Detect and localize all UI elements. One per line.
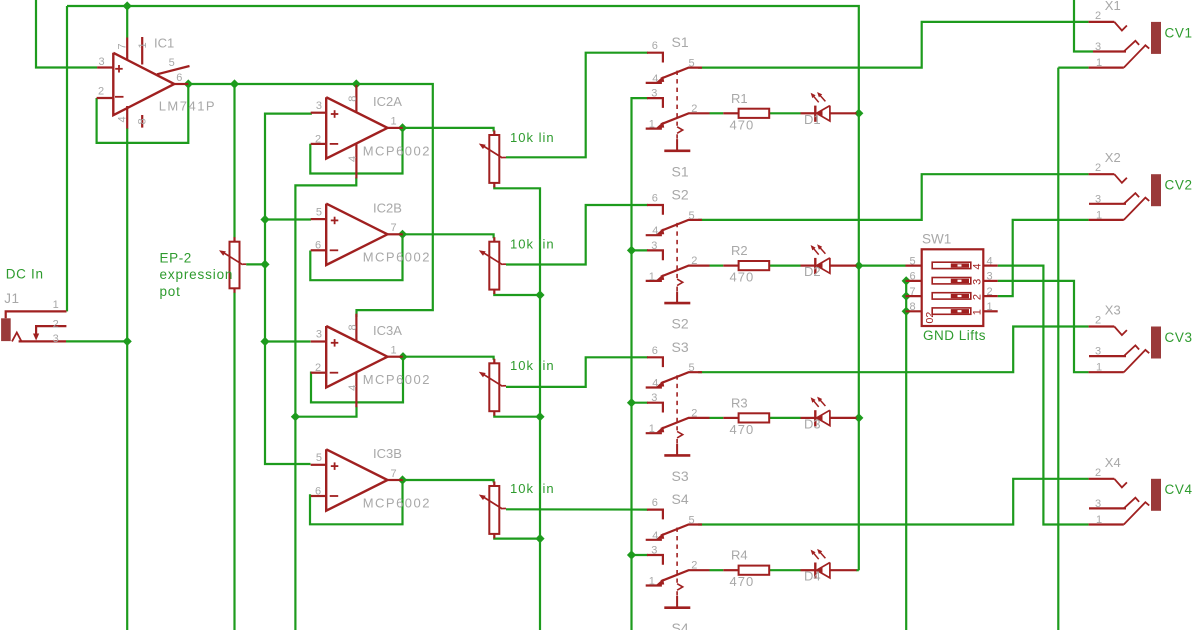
svg-text:5: 5: [689, 515, 695, 527]
svg-text:1: 1: [53, 299, 59, 311]
svg-text:6: 6: [652, 345, 658, 357]
svg-text:10k lin: 10k lin: [510, 130, 555, 145]
svg-text:1: 1: [987, 301, 993, 313]
svg-text:2: 2: [1095, 162, 1101, 174]
svg-text:470: 470: [730, 270, 755, 285]
svg-text:D1: D1: [804, 112, 821, 127]
svg-text:1: 1: [649, 423, 655, 435]
svg-text:8: 8: [910, 301, 916, 313]
svg-text:D4: D4: [804, 569, 821, 584]
svg-text:2: 2: [315, 362, 321, 374]
svg-text:1: 1: [649, 271, 655, 283]
svg-text:IC2B: IC2B: [373, 200, 402, 215]
svg-text:4: 4: [652, 530, 658, 542]
svg-text:2: 2: [1095, 315, 1101, 327]
svg-text:IC3B: IC3B: [373, 446, 402, 461]
svg-text:CV4: CV4: [1165, 482, 1193, 497]
svg-text:S1: S1: [672, 163, 689, 179]
svg-text:3: 3: [651, 392, 657, 404]
svg-text:4: 4: [652, 73, 658, 85]
svg-text:10k lin: 10k lin: [510, 481, 555, 496]
svg-text:7: 7: [910, 286, 916, 298]
svg-text:2: 2: [691, 255, 697, 267]
svg-text:IC3A: IC3A: [373, 323, 402, 338]
svg-text:2: 2: [691, 103, 697, 115]
svg-text:X4: X4: [1105, 455, 1121, 470]
svg-text:1: 1: [649, 576, 655, 588]
svg-text:X3: X3: [1105, 303, 1121, 318]
svg-text:S3: S3: [672, 468, 689, 484]
svg-text:3: 3: [651, 240, 657, 252]
svg-text:R4: R4: [731, 548, 748, 563]
svg-text:02: 02: [924, 312, 936, 324]
svg-text:3: 3: [1095, 193, 1101, 205]
svg-text:4: 4: [652, 225, 658, 237]
svg-text:6: 6: [652, 497, 658, 509]
svg-text:J1: J1: [4, 291, 19, 306]
svg-text:4: 4: [987, 255, 993, 267]
svg-text:S1: S1: [672, 34, 689, 50]
svg-text:2: 2: [1095, 10, 1101, 22]
svg-text:4: 4: [972, 263, 984, 269]
svg-text:pot: pot: [160, 284, 181, 299]
svg-text:1: 1: [137, 42, 149, 48]
svg-text:1: 1: [391, 345, 397, 357]
svg-text:4: 4: [116, 116, 128, 122]
svg-text:3: 3: [651, 545, 657, 557]
svg-text:2: 2: [972, 294, 984, 300]
svg-text:3: 3: [972, 279, 984, 285]
svg-text:5: 5: [689, 210, 695, 222]
svg-text:1: 1: [1096, 514, 1102, 526]
svg-text:470: 470: [730, 117, 755, 132]
svg-text:5: 5: [169, 57, 175, 69]
svg-text:8: 8: [347, 96, 359, 102]
svg-text:2: 2: [1095, 467, 1101, 479]
svg-text:5: 5: [316, 206, 322, 218]
svg-text:6: 6: [652, 40, 658, 52]
svg-text:1: 1: [391, 116, 397, 128]
svg-text:2: 2: [53, 319, 59, 331]
svg-text:CV3: CV3: [1165, 330, 1193, 345]
svg-text:MCP6002: MCP6002: [363, 372, 431, 387]
svg-text:7: 7: [116, 43, 128, 49]
svg-text:6: 6: [910, 271, 916, 283]
svg-text:2: 2: [987, 286, 993, 298]
svg-text:CV1: CV1: [1165, 25, 1193, 40]
svg-text:3: 3: [1095, 498, 1101, 510]
svg-text:1: 1: [1096, 362, 1102, 374]
svg-text:7: 7: [391, 468, 397, 480]
svg-text:3: 3: [651, 88, 657, 100]
svg-text:8: 8: [137, 118, 149, 124]
svg-text:1: 1: [972, 309, 984, 315]
svg-text:1: 1: [649, 119, 655, 131]
svg-text:5: 5: [689, 58, 695, 70]
svg-text:MCP6002: MCP6002: [363, 143, 431, 158]
svg-text:GND Lifts: GND Lifts: [923, 328, 986, 343]
svg-text:expression: expression: [160, 267, 234, 282]
svg-text:470: 470: [730, 574, 755, 589]
svg-text:4: 4: [347, 156, 359, 162]
svg-text:4: 4: [347, 385, 359, 391]
svg-text:3: 3: [316, 329, 322, 341]
svg-text:R2: R2: [731, 243, 748, 258]
svg-text:LM741P: LM741P: [159, 99, 216, 114]
svg-text:6: 6: [652, 193, 658, 205]
svg-text:EP-2: EP-2: [160, 251, 192, 266]
svg-text:S3: S3: [672, 339, 689, 355]
svg-text:5: 5: [316, 452, 322, 464]
svg-text:R1: R1: [731, 91, 748, 106]
svg-text:1: 1: [1096, 57, 1102, 69]
svg-text:4: 4: [652, 378, 658, 390]
svg-text:IC1: IC1: [154, 36, 174, 51]
svg-text:R3: R3: [731, 395, 748, 410]
svg-text:10k lin: 10k lin: [510, 237, 555, 252]
svg-text:SW1: SW1: [922, 232, 951, 247]
svg-text:DC In: DC In: [6, 267, 44, 282]
svg-text:D3: D3: [804, 416, 821, 431]
svg-text:3: 3: [316, 100, 322, 112]
svg-text:CV2: CV2: [1165, 178, 1193, 193]
svg-text:IC2A: IC2A: [373, 94, 402, 109]
svg-text:6: 6: [315, 485, 321, 497]
svg-text:2: 2: [315, 133, 321, 145]
svg-text:3: 3: [1095, 41, 1101, 53]
svg-text:X1: X1: [1105, 0, 1121, 13]
svg-text:2: 2: [691, 407, 697, 419]
svg-text:5: 5: [910, 255, 916, 267]
svg-text:6: 6: [176, 72, 182, 84]
svg-text:10k lin: 10k lin: [510, 358, 555, 373]
svg-text:S4: S4: [672, 620, 689, 630]
svg-text:5: 5: [689, 362, 695, 374]
svg-text:470: 470: [730, 422, 755, 437]
svg-text:S2: S2: [672, 187, 689, 203]
svg-text:X2: X2: [1105, 150, 1121, 165]
svg-text:1: 1: [1096, 209, 1102, 221]
svg-text:3: 3: [1095, 346, 1101, 358]
svg-text:2: 2: [98, 85, 104, 97]
svg-text:8: 8: [347, 324, 359, 330]
svg-text:3: 3: [987, 271, 993, 283]
svg-text:S4: S4: [672, 491, 689, 507]
svg-text:3: 3: [53, 333, 59, 345]
svg-text:D2: D2: [804, 264, 821, 279]
svg-text:3: 3: [99, 56, 105, 68]
svg-text:7: 7: [391, 222, 397, 234]
svg-text:6: 6: [315, 240, 321, 252]
svg-text:2: 2: [691, 560, 697, 572]
svg-text:MCP6002: MCP6002: [363, 250, 431, 265]
svg-text:MCP6002: MCP6002: [363, 495, 431, 510]
svg-text:S2: S2: [672, 316, 689, 332]
